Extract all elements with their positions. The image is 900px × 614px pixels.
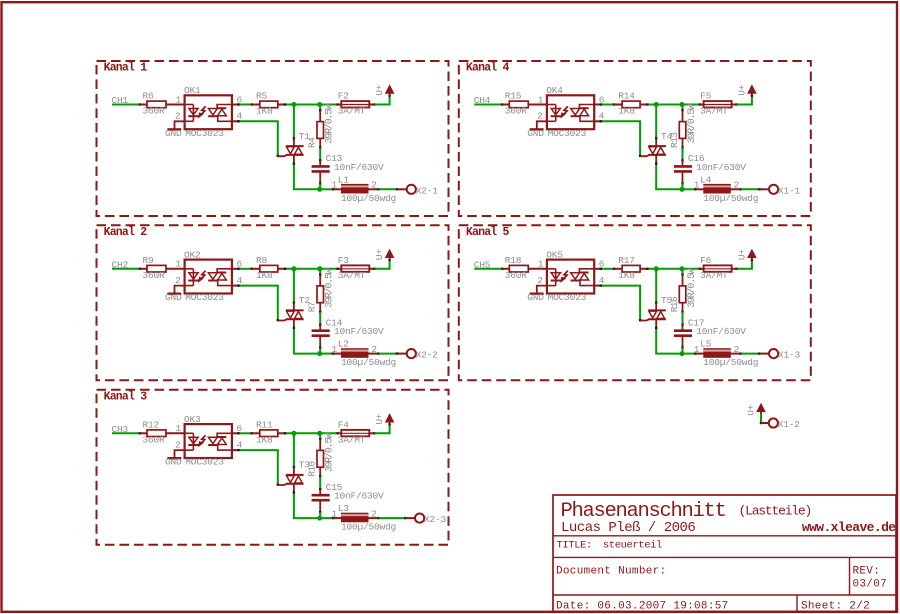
svg-text:2: 2 <box>175 111 181 122</box>
svg-text:1K8: 1K8 <box>618 270 635 281</box>
wire fuse to supply <box>374 260 389 269</box>
wire pin6 to R <box>594 104 601 106</box>
svg-text:R18: R18 <box>505 255 522 266</box>
svg-text:R10: R10 <box>307 461 318 477</box>
svg-text:U+: U+ <box>746 404 757 416</box>
wire fuse to supply <box>374 96 389 105</box>
svg-text:U+: U+ <box>374 413 385 425</box>
wire Rv to C <box>682 148 684 161</box>
wire Rv to C <box>319 312 321 325</box>
optocoupler OK3 MOC3023 <box>185 424 232 458</box>
resistor R14 1K8 <box>614 104 622 106</box>
svg-text:OK2: OK2 <box>184 249 201 260</box>
junction bottom rail <box>317 351 322 356</box>
OK2 emitter bolt <box>201 271 206 280</box>
supply +U <box>389 422 391 425</box>
resistor R16 39R/0.5W <box>682 275 684 286</box>
svg-text:1: 1 <box>332 344 338 355</box>
fuse F2 3A/MT <box>338 104 342 106</box>
svg-text:2: 2 <box>371 344 377 355</box>
svg-text:F2: F2 <box>338 91 350 102</box>
wire rail to Rv <box>319 269 321 275</box>
svg-text:REV:: REV: <box>853 566 881 578</box>
svg-text:360R: 360R <box>505 270 528 281</box>
svg-text:R8: R8 <box>256 255 268 266</box>
OK1 internal LED <box>185 104 194 106</box>
wire pin4 to gate <box>594 285 601 287</box>
resistor R10 39R/0.5W <box>319 439 321 450</box>
ground <box>537 121 547 128</box>
svg-text:2: 2 <box>734 344 740 355</box>
wire triac drop <box>293 269 295 303</box>
OK2 internal LED <box>185 268 194 270</box>
wire input <box>112 432 140 434</box>
svg-text:Kanal 1: Kanal 1 <box>104 62 148 75</box>
resistor R8 1K8 <box>252 268 260 270</box>
Kanal 3 frame <box>97 390 449 545</box>
OK5 internal LED <box>547 268 556 270</box>
OK3 internal LED <box>185 432 194 434</box>
svg-text:100µ/50wdg: 100µ/50wdg <box>341 522 396 533</box>
capacitor C13 10nF/630V <box>319 160 321 165</box>
resistor R7 39R/0.5W <box>319 275 321 286</box>
svg-text:2: 2 <box>175 275 181 286</box>
junction rail/Rv <box>317 266 322 271</box>
title block divider 1 <box>553 535 896 537</box>
title block REV divider <box>849 557 851 595</box>
wire fuse to supply <box>737 96 752 105</box>
wire R to fuse rail <box>285 432 338 434</box>
svg-text:4: 4 <box>599 111 605 122</box>
svg-text:Kanal 3: Kanal 3 <box>104 390 148 403</box>
svg-text:MOC3023: MOC3023 <box>185 128 224 139</box>
junction bottom rail <box>317 516 322 521</box>
resistor R17 1K8 <box>614 268 622 270</box>
optocoupler OK5 MOC3023 <box>547 260 594 294</box>
svg-text:MOC3023: MOC3023 <box>548 292 587 303</box>
wire Rv to C <box>319 476 321 489</box>
fuse F3 3A/MT <box>338 268 342 270</box>
wire triac drop <box>655 105 657 139</box>
svg-text:R16: R16 <box>669 296 680 312</box>
title block Sheet divider <box>796 595 798 612</box>
wire fuse to supply <box>374 424 389 433</box>
connector X2-2 <box>397 353 407 355</box>
wire C to bottom rail <box>319 512 321 518</box>
optocoupler OK1 MOC3023 <box>185 95 232 129</box>
supply +U <box>389 257 391 260</box>
svg-text:U+: U+ <box>374 249 385 261</box>
supply +U <box>389 93 391 96</box>
wire triac to bottom rail <box>294 492 320 518</box>
svg-text:1: 1 <box>332 508 338 519</box>
title block divider 2 <box>553 556 896 558</box>
optocoupler OK4 MOC3023 <box>547 95 594 129</box>
supply +U <box>751 93 753 96</box>
svg-text:F4: F4 <box>338 419 350 430</box>
svg-text:www.xleave.de: www.xleave.de <box>802 520 896 535</box>
ground <box>175 450 185 457</box>
junction rail/Rv <box>317 102 322 107</box>
resistor R9 360R <box>140 268 147 270</box>
svg-text:1K8: 1K8 <box>618 106 635 117</box>
svg-text:3A/MT: 3A/MT <box>700 106 728 117</box>
junction rail/triac <box>291 266 296 271</box>
resistor R4 39R/0.5W <box>319 110 321 121</box>
Kanal 2 frame <box>97 225 449 380</box>
svg-text:R4: R4 <box>307 137 318 148</box>
svg-text:03/07: 03/07 <box>853 579 888 591</box>
svg-text:L5: L5 <box>700 339 712 350</box>
svg-text:X1-1: X1-1 <box>778 185 801 196</box>
svg-text:OK3: OK3 <box>184 414 201 425</box>
optocoupler OK2 MOC3023 <box>185 260 232 294</box>
svg-text:GND: GND <box>165 292 182 303</box>
wire pin6 to R <box>232 432 239 434</box>
inductor L2 100u/50wdg <box>333 353 341 355</box>
svg-text:360R: 360R <box>143 106 166 117</box>
resistor R13 39R/0.5W <box>682 110 684 121</box>
ground <box>537 286 547 293</box>
OK5 internal photo-triac <box>571 273 580 279</box>
wire R to fuse rail <box>285 104 338 106</box>
wire pin4 to gate <box>232 120 239 122</box>
wire supply to X1-2 <box>760 414 762 423</box>
svg-text:R6: R6 <box>143 91 155 102</box>
wire pin6 to R <box>232 104 239 106</box>
wire L to connector <box>379 353 397 355</box>
svg-text:Lucas Pleß / 2006: Lucas Pleß / 2006 <box>561 520 695 536</box>
wire triac to bottom rail <box>294 164 320 190</box>
svg-text:GND: GND <box>527 128 544 139</box>
wire pin6 to R <box>594 268 601 270</box>
wire input <box>112 104 140 106</box>
wire L to connector <box>741 353 759 355</box>
svg-text:R17: R17 <box>618 255 635 266</box>
svg-text:100µ/50wdg: 100µ/50wdg <box>703 193 758 204</box>
connector X1-3 <box>759 353 769 355</box>
svg-text:U+: U+ <box>737 84 748 96</box>
svg-text:1: 1 <box>176 423 182 434</box>
resistor R11 1K8 <box>252 432 260 434</box>
wire C to bottom rail <box>319 183 321 189</box>
wire pin4 to gate <box>232 449 239 451</box>
svg-text:2: 2 <box>175 439 181 450</box>
svg-text:Date: 06.03.2007 19:08:57: Date: 06.03.2007 19:08:57 <box>556 601 729 613</box>
svg-text:100µ/50wdg: 100µ/50wdg <box>341 193 396 204</box>
svg-text:10nF/630V: 10nF/630V <box>334 326 384 337</box>
svg-text:39R/0.5W: 39R/0.5W <box>686 104 698 144</box>
capacitor C14 10nF/630V <box>319 325 321 330</box>
svg-text:TITLE:: TITLE: <box>557 540 592 552</box>
junction bottom rail <box>680 351 685 356</box>
OK3 emitter bolt <box>201 435 206 444</box>
svg-text:OK4: OK4 <box>546 85 563 96</box>
svg-text:1: 1 <box>332 180 338 191</box>
svg-text:Kanal 5: Kanal 5 <box>466 226 510 239</box>
junction rail/triac <box>654 266 659 271</box>
svg-text:Kanal 2: Kanal 2 <box>104 226 148 239</box>
fuse F5 3A/MT <box>700 104 704 106</box>
svg-text:R9: R9 <box>143 255 155 266</box>
wire pin4 to gate <box>232 285 239 287</box>
junction rail/Rv <box>680 266 685 271</box>
svg-text:39R/0.5W: 39R/0.5W <box>324 104 336 144</box>
ground <box>175 286 185 293</box>
fuse F6 3A/MT <box>700 268 704 270</box>
inductor L3 100u/50wdg <box>333 517 341 519</box>
wire rail to Rv <box>319 433 321 439</box>
junction rail/triac <box>291 431 296 436</box>
Kanal 1 frame <box>97 61 449 216</box>
ground <box>175 121 185 128</box>
svg-text:R14: R14 <box>618 91 635 102</box>
resistor R18 360R <box>502 268 509 270</box>
wire rail to Rv <box>682 269 684 275</box>
wire bottom rail to L <box>320 353 333 355</box>
svg-text:GND: GND <box>527 292 544 303</box>
wire input <box>474 268 502 270</box>
inductor L5 100u/50wdg <box>695 353 703 355</box>
svg-text:3A/MT: 3A/MT <box>338 270 366 281</box>
connector X2-1 <box>397 188 407 190</box>
svg-text:10nF/630V: 10nF/630V <box>334 491 384 502</box>
capacitor C16 10nF/630V <box>682 160 684 165</box>
wire L to connector <box>379 188 397 190</box>
junction bottom rail <box>680 187 685 192</box>
svg-text:4: 4 <box>599 275 605 286</box>
svg-text:GND: GND <box>165 457 182 468</box>
wire triac to bottom rail <box>656 328 682 354</box>
svg-text:10nF/630V: 10nF/630V <box>696 326 746 337</box>
svg-text:L4: L4 <box>700 174 712 185</box>
svg-text:3A/MT: 3A/MT <box>338 434 366 445</box>
svg-text:MOC3023: MOC3023 <box>185 292 224 303</box>
svg-text:2: 2 <box>537 275 543 286</box>
svg-text:39R/0.5W: 39R/0.5W <box>686 268 698 308</box>
svg-text:R13: R13 <box>669 132 680 148</box>
OK1 emitter bolt <box>201 106 206 115</box>
wire triac drop <box>655 269 657 303</box>
wire L to connector <box>379 517 406 519</box>
OK1 internal photo-triac <box>208 109 217 115</box>
svg-text:1: 1 <box>176 94 182 105</box>
svg-text:MOC3023: MOC3023 <box>185 457 224 468</box>
svg-text:Sheet: 2/2: Sheet: 2/2 <box>801 601 870 613</box>
Kanal 5 frame <box>459 225 811 380</box>
svg-text:1: 1 <box>694 344 700 355</box>
OK4 emitter bolt <box>563 106 568 115</box>
svg-text:2: 2 <box>371 508 377 519</box>
wire fuse to supply <box>737 260 752 269</box>
connector X1-1 <box>759 188 769 190</box>
OK3 internal photo-triac <box>208 437 217 443</box>
wire triac drop <box>293 105 295 139</box>
svg-text:U+: U+ <box>374 84 385 96</box>
title block divider 3 <box>553 594 896 596</box>
wire pin4 to gate <box>594 120 601 122</box>
svg-text:1K8: 1K8 <box>256 434 273 445</box>
junction rail/triac <box>291 102 296 107</box>
capacitor C15 10nF/630V <box>319 489 321 494</box>
svg-text:1: 1 <box>694 180 700 191</box>
wire C to bottom rail <box>682 348 684 354</box>
svg-text:10nF/630V: 10nF/630V <box>696 162 746 173</box>
Kanal 4 frame <box>459 61 811 216</box>
svg-text:F3: F3 <box>338 255 350 266</box>
wire C to bottom rail <box>682 183 684 189</box>
svg-text:1: 1 <box>538 94 544 105</box>
wire L to connector <box>741 188 759 190</box>
inductor L1 100u/50wdg <box>333 188 341 190</box>
svg-text:100µ/50wdg: 100µ/50wdg <box>703 357 758 368</box>
svg-text:4: 4 <box>237 111 243 122</box>
svg-text:R5: R5 <box>256 91 268 102</box>
svg-text:3A/MT: 3A/MT <box>338 106 366 117</box>
title block frame <box>553 495 896 612</box>
junction bottom rail <box>317 187 322 192</box>
wire Rv to C <box>682 312 684 325</box>
wire input <box>112 268 140 270</box>
connector X1-2 <box>761 422 769 424</box>
svg-text:X2-3: X2-3 <box>424 514 447 525</box>
svg-text:U+: U+ <box>737 249 748 261</box>
svg-text:R15: R15 <box>505 91 522 102</box>
fuse F4 3A/MT <box>338 432 342 434</box>
wire pin6 to R <box>232 268 239 270</box>
junction rail/Rv <box>317 431 322 436</box>
svg-text:1K8: 1K8 <box>256 270 273 281</box>
svg-text:2: 2 <box>371 180 377 191</box>
svg-text:X1-3: X1-3 <box>778 350 801 361</box>
svg-text:4: 4 <box>237 439 243 450</box>
svg-text:F6: F6 <box>700 255 712 266</box>
wire triac to bottom rail <box>656 164 682 190</box>
wire triac to bottom rail <box>294 328 320 354</box>
inductor L4 100u/50wdg <box>695 188 703 190</box>
svg-text:R7: R7 <box>307 302 318 312</box>
resistor R12 360R <box>140 432 147 434</box>
wire bottom rail to L <box>320 188 333 190</box>
OK5 emitter bolt <box>563 271 568 280</box>
wire triac drop <box>293 433 295 467</box>
svg-text:Kanal 4: Kanal 4 <box>466 62 510 75</box>
resistor R15 360R <box>502 104 509 106</box>
svg-text:1: 1 <box>538 259 544 270</box>
svg-text:39R/0.5W: 39R/0.5W <box>324 433 336 473</box>
junction rail/triac <box>654 102 659 107</box>
resistor R6 360R <box>140 104 147 106</box>
svg-text:10nF/630V: 10nF/630V <box>334 162 384 173</box>
wire bottom rail to L <box>682 353 695 355</box>
svg-text:R12: R12 <box>143 419 160 430</box>
supply +U <box>751 257 753 260</box>
svg-text:L2: L2 <box>338 339 350 350</box>
svg-text:Document Number:: Document Number: <box>556 566 666 578</box>
OK2 internal photo-triac <box>208 273 217 279</box>
svg-text:X1-2: X1-2 <box>778 419 801 430</box>
svg-text:1: 1 <box>176 259 182 270</box>
wire R to fuse rail <box>647 104 700 106</box>
svg-text:X2-1: X2-1 <box>416 185 439 196</box>
svg-text:OK5: OK5 <box>546 249 563 260</box>
OK4 internal photo-triac <box>571 109 580 115</box>
svg-text:GND: GND <box>165 128 182 139</box>
wire rail to Rv <box>319 105 321 111</box>
svg-text:F5: F5 <box>700 91 712 102</box>
svg-text:R11: R11 <box>256 419 273 430</box>
wire bottom rail to L <box>320 517 333 519</box>
wire R to fuse rail <box>647 268 700 270</box>
OK4 internal LED <box>547 104 556 106</box>
wire R to fuse rail <box>285 268 338 270</box>
svg-text:360R: 360R <box>143 270 166 281</box>
connector X2-3 <box>405 517 415 519</box>
svg-text:100µ/50wdg: 100µ/50wdg <box>341 357 396 368</box>
svg-text:(Lastteile): (Lastteile) <box>739 503 812 518</box>
resistor R5 1K8 <box>252 104 260 106</box>
svg-text:2: 2 <box>537 111 543 122</box>
svg-text:39R/0.5W: 39R/0.5W <box>324 268 336 308</box>
wire input <box>474 104 502 106</box>
svg-text:360R: 360R <box>143 434 166 445</box>
svg-text:1K8: 1K8 <box>256 106 273 117</box>
svg-text:steuerteil: steuerteil <box>603 540 662 552</box>
svg-text:360R: 360R <box>505 106 528 117</box>
wire Rv to C <box>319 148 321 161</box>
svg-text:X2-2: X2-2 <box>416 350 439 361</box>
wire bottom rail to L <box>682 188 695 190</box>
capacitor C17 10nF/630V <box>682 325 684 330</box>
wire rail to Rv <box>682 105 684 111</box>
svg-text:MOC3023: MOC3023 <box>548 128 587 139</box>
svg-text:3A/MT: 3A/MT <box>700 270 728 281</box>
svg-text:L1: L1 <box>338 174 350 185</box>
svg-text:4: 4 <box>237 275 243 286</box>
junction rail/Rv <box>680 102 685 107</box>
svg-text:2: 2 <box>734 180 740 191</box>
wire C to bottom rail <box>319 348 321 354</box>
svg-text:OK1: OK1 <box>184 85 201 96</box>
svg-text:L3: L3 <box>338 503 350 514</box>
